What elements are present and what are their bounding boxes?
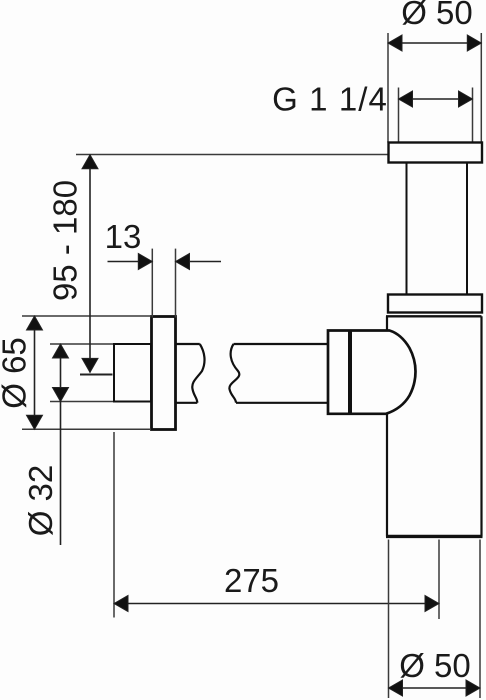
compression nut (top of body) <box>388 295 482 313</box>
siphon body bottom edge <box>386 535 483 538</box>
dimension G 1 1/4: extension line right <box>472 88 474 143</box>
dimension 95-180: dimension line with arrowheads <box>82 155 98 373</box>
svg-text:13: 13 <box>105 218 142 255</box>
svg-text:G 1 1/4: G 1 1/4 <box>272 81 388 118</box>
siphon body <box>387 316 482 536</box>
dimension Ø32: dimension line with arrowheads and leader <box>53 344 69 545</box>
dimension Ø65: extension line bottom <box>22 428 151 430</box>
dimension 13: arrow left <box>108 254 153 270</box>
dimension Ø50 bottom: dimension line with arrowheads <box>389 680 481 696</box>
dimension 275: dimension line with arrowheads <box>114 596 439 612</box>
dimension Ø50 top: extension line right <box>480 33 482 143</box>
svg-text:95 - 180: 95 - 180 <box>47 180 84 301</box>
dimension Ø50 bottom: extension line left <box>388 540 390 699</box>
inlet pipe right segment top <box>234 343 330 345</box>
dimension 13: extension line left <box>151 249 153 318</box>
tailpipe left edge <box>406 163 408 296</box>
dimension 13: extension line right <box>175 249 177 318</box>
wall pipe stub <box>114 344 151 402</box>
dimension Ø65: dimension line with arrowheads <box>27 316 43 429</box>
rosette flange (top) <box>389 143 483 163</box>
dimension Ø32: extension line top <box>50 343 113 345</box>
svg-text:Ø 50: Ø 50 <box>401 0 473 31</box>
inlet pipe left segment top <box>176 343 200 345</box>
pipe break line (right segment) <box>229 344 239 403</box>
body top edge <box>386 315 482 317</box>
dimension G 1 1/4: dimension line with arrowheads <box>399 91 473 107</box>
inlet nut divider (thick) <box>348 331 352 415</box>
pipe centerline tick <box>80 374 113 376</box>
inlet pipe left segment bottom <box>176 402 197 404</box>
dimension 275: extension line right (body centerline) <box>438 540 440 620</box>
inlet dome cap outline <box>328 331 416 414</box>
svg-text:Ø 65: Ø 65 <box>0 337 33 409</box>
mounting reference line <box>76 154 397 156</box>
wall rosette flange <box>152 317 176 430</box>
dimension Ø50 top: dimension line with arrowheads <box>388 35 481 51</box>
pipe break line (left segment) <box>192 344 204 403</box>
dimension 275: extension line left <box>113 432 115 618</box>
tailpipe right edge <box>466 163 468 296</box>
svg-text:Ø 32: Ø 32 <box>22 465 59 537</box>
svg-text:275: 275 <box>224 562 279 599</box>
dimension Ø50 bottom: extension line right <box>479 540 481 699</box>
dimension Ø65: extension line top <box>22 315 151 317</box>
inlet pipe right segment bottom <box>236 402 329 404</box>
dimension Ø32: extension line bottom <box>50 401 113 403</box>
dimension G 1 1/4: extension line left <box>398 88 400 143</box>
dimension 13: arrow right <box>176 254 222 270</box>
svg-text:Ø 50: Ø 50 <box>399 647 471 684</box>
dimension Ø50 top: extension line left <box>387 33 389 143</box>
